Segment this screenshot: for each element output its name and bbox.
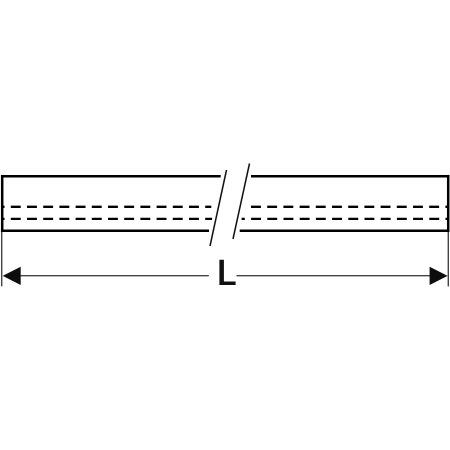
thread dashed line upper, right part	[251, 206, 449, 208]
thread dashed line lower, right part	[242, 218, 449, 220]
rod bottom outline right segment	[240, 230, 450, 233]
right dimension arrowhead	[430, 267, 448, 285]
dimension line left segment	[20, 275, 209, 277]
thread dashed line lower, left part	[2, 218, 212, 220]
left extension line	[1, 232, 3, 286]
rod top outline right segment	[251, 175, 449, 178]
left dimension arrowhead	[3, 267, 21, 285]
right extension line	[447, 232, 449, 286]
dimension label L	[219, 260, 235, 285]
rod right end edge	[447, 175, 450, 232]
thread dashed line upper, left part	[2, 206, 211, 208]
rod left end edge	[1, 175, 4, 232]
break line left diagonal	[210, 170, 227, 246]
break line right diagonal	[233, 164, 250, 240]
rod bottom outline left segment	[1, 230, 209, 233]
rod top outline left segment	[1, 175, 221, 178]
dimension line right segment	[237, 275, 431, 277]
